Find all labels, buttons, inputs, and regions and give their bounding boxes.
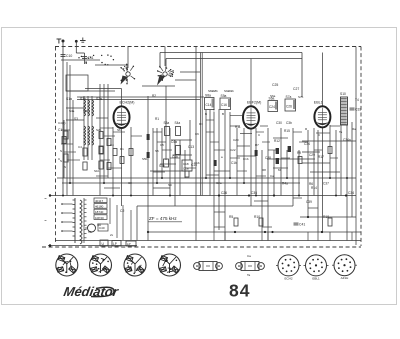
svg-text:C4: C4: [78, 145, 82, 149]
svg-text:C2: C2: [120, 209, 124, 213]
svg-text:C34: C34: [304, 142, 310, 146]
svg-text:C34: C34: [348, 191, 354, 195]
svg-text:C26: C26: [286, 105, 292, 109]
svg-text:B: B: [222, 112, 224, 116]
svg-text:C41: C41: [299, 222, 305, 226]
svg-text:C1b: C1b: [243, 157, 249, 161]
svg-text:C36: C36: [251, 191, 257, 195]
svg-text:S9b: S9b: [229, 89, 235, 93]
svg-text:S1b: S1b: [80, 97, 86, 101]
svg-text:R2: R2: [152, 94, 156, 98]
svg-text:S6: S6: [117, 128, 121, 132]
svg-text:LP: LP: [113, 242, 117, 246]
svg-text:B: B: [205, 112, 207, 116]
svg-text:AZ1H: AZ1H: [341, 276, 349, 280]
svg-text:C40: C40: [99, 226, 105, 230]
svg-text:C1: C1: [58, 128, 62, 132]
svg-text:C4(1): C4(1): [58, 121, 66, 125]
svg-text:S8b: S8b: [213, 89, 219, 93]
svg-text:S2a: S2a: [96, 97, 102, 101]
svg-text:C4b: C4b: [172, 155, 178, 159]
svg-text:EBL1: EBL1: [312, 276, 320, 280]
svg-text:C10: C10: [66, 54, 72, 58]
svg-text:Ca: Ca: [270, 174, 274, 178]
svg-text:C29: C29: [309, 153, 315, 157]
svg-text:R3: R3: [199, 122, 203, 126]
svg-text:S: S: [60, 149, 62, 153]
svg-text:R1: R1: [155, 117, 159, 121]
svg-text:C6: C6: [195, 132, 199, 136]
svg-text:S5: S5: [155, 149, 159, 153]
svg-text:R15: R15: [284, 129, 290, 133]
svg-text:C20: C20: [233, 138, 239, 142]
svg-text:C13: C13: [188, 145, 194, 149]
svg-text:C1b: C1b: [194, 161, 200, 165]
svg-text:S4a: S4a: [175, 121, 181, 125]
svg-text:C22: C22: [230, 148, 236, 152]
svg-text:T4: T4: [355, 98, 359, 102]
svg-text:S9: S9: [168, 183, 172, 187]
svg-text:C34a: C34a: [343, 138, 351, 142]
svg-text:R1: R1: [120, 147, 124, 151]
svg-text:Ta: Ta: [247, 273, 251, 277]
svg-text:ZF = 475 kHz: ZF = 475 kHz: [149, 216, 177, 221]
svg-text:40117: 40117: [95, 199, 103, 203]
svg-text:C25: C25: [272, 83, 278, 87]
svg-text:C18: C18: [183, 162, 189, 166]
svg-text:Ta: Ta: [339, 130, 343, 134]
svg-text:S: S: [60, 159, 62, 163]
svg-text:R17: R17: [318, 155, 324, 159]
svg-text:S: S: [64, 165, 66, 169]
svg-text:R4a: R4a: [282, 182, 288, 186]
svg-text:R9: R9: [297, 151, 301, 155]
svg-text:C26: C26: [221, 191, 227, 195]
svg-text:R11: R11: [235, 125, 241, 129]
svg-text:EBF2(M): EBF2(M): [247, 100, 261, 104]
svg-text:S1a: S1a: [66, 97, 72, 101]
svg-text:R5: R5: [229, 215, 233, 219]
svg-text:18740: 18740: [95, 210, 104, 214]
svg-text:V1: V1: [88, 230, 92, 234]
svg-text:T: T: [213, 109, 215, 113]
svg-text:S9a: S9a: [221, 94, 227, 98]
svg-text:C39: C39: [306, 200, 312, 204]
svg-text:S1b: S1b: [94, 169, 100, 173]
svg-text:C28: C28: [265, 156, 271, 160]
svg-text:C1a: C1a: [183, 167, 189, 171]
svg-text:C16: C16: [221, 103, 227, 107]
svg-text:C5: C5: [160, 143, 164, 147]
svg-text:C14: C14: [206, 103, 212, 107]
svg-text:S6a: S6a: [270, 94, 276, 98]
svg-text:R8: R8: [262, 168, 266, 172]
svg-text:C3b: C3b: [286, 121, 292, 125]
svg-text:C30: C30: [276, 121, 282, 125]
svg-text:S10: S10: [340, 92, 346, 96]
svg-text:S3a: S3a: [164, 121, 170, 125]
svg-text:S4b: S4b: [83, 109, 89, 113]
svg-text:C8: C8: [128, 181, 132, 185]
svg-text:S8a: S8a: [205, 93, 211, 97]
svg-text:~: ~: [44, 218, 47, 223]
svg-text:R12: R12: [274, 139, 280, 143]
svg-text:Ra: Ra: [352, 127, 356, 131]
svg-text:ECH2(M): ECH2(M): [120, 101, 135, 105]
svg-text:S7a: S7a: [286, 95, 292, 99]
svg-text:R14: R14: [311, 186, 317, 190]
svg-text:EBL1: EBL1: [314, 100, 323, 104]
svg-text:C1b: C1b: [231, 161, 237, 165]
svg-text:84: 84: [229, 281, 250, 301]
svg-text:ECH2: ECH2: [284, 276, 292, 280]
svg-text:Ca: Ca: [247, 254, 251, 258]
svg-text:C4a: C4a: [171, 140, 177, 144]
svg-text:S7b: S7b: [298, 95, 304, 99]
svg-text:46180: 46180: [95, 205, 104, 209]
svg-text:10P40: 10P40: [95, 216, 104, 220]
svg-text:C2a: C2a: [216, 181, 222, 185]
svg-text:C37: C37: [323, 182, 329, 186]
svg-text:C33: C33: [355, 107, 361, 111]
svg-text:C24: C24: [269, 105, 275, 109]
svg-text:S4a: S4a: [69, 109, 75, 113]
svg-text:2x: 2x: [110, 233, 114, 237]
svg-text:S3b: S3b: [159, 164, 165, 168]
svg-text:~: ~: [44, 196, 47, 201]
svg-text:LP: LP: [127, 242, 131, 246]
svg-text:S3: S3: [74, 117, 78, 121]
svg-text:C27: C27: [293, 87, 299, 91]
svg-text:R7: R7: [255, 143, 259, 147]
